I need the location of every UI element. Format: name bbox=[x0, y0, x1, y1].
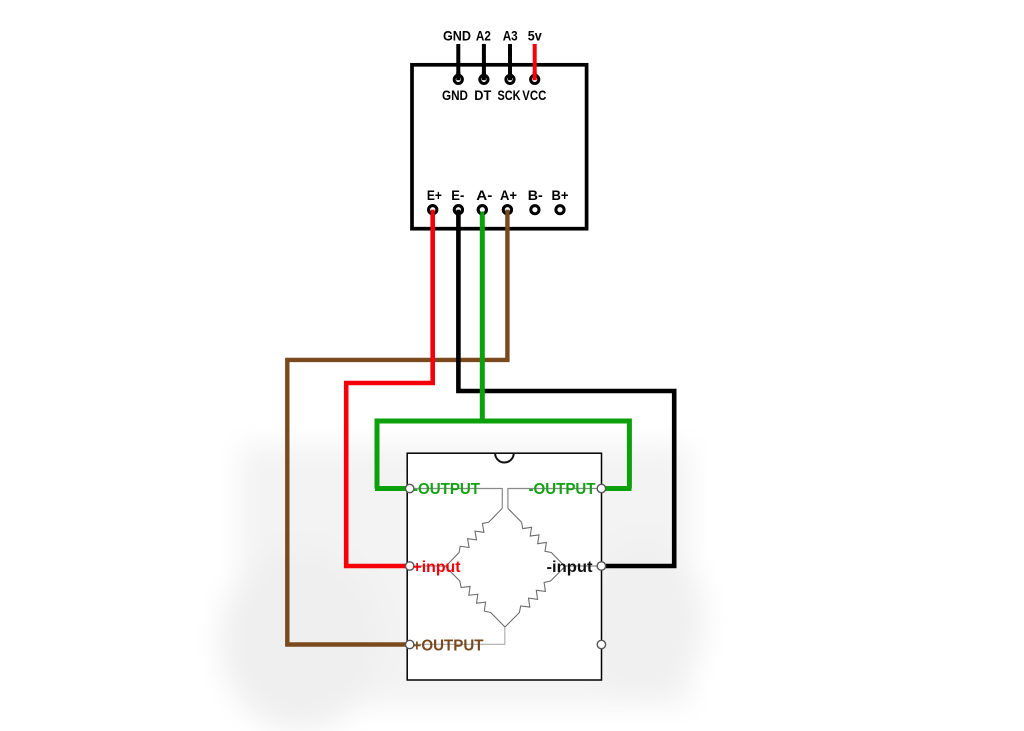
bridge lead: left pin to bridge left node bbox=[410, 565, 446, 567]
notch bbox=[495, 453, 514, 462]
svg-text:GND: GND bbox=[442, 88, 468, 103]
svg-text:SCK: SCK bbox=[498, 88, 521, 103]
pin VCC hole bbox=[531, 75, 539, 83]
resistor R3 (bridge bottom-left) bbox=[446, 567, 506, 628]
pin A+ hole bbox=[503, 206, 511, 214]
wire black through E- hole bbox=[456, 210, 460, 216]
resistor R2 (bridge top-right) bbox=[508, 508, 565, 566]
svg-text:A-: A- bbox=[476, 188, 492, 203]
svg-text:-OUTPUT: -OUTPUT bbox=[413, 481, 480, 498]
bridge lead: bottom node to bottom-left pin bbox=[410, 627, 505, 645]
pin unused bottom-right bbox=[597, 640, 605, 648]
svg-text:A2: A2 bbox=[476, 28, 491, 43]
wire SCK stub (to Arduino A3) bbox=[508, 44, 512, 79]
pin DT stub overlay bbox=[482, 72, 486, 80]
bridge lead: right pin to bridge right node bbox=[565, 565, 601, 567]
pin A+ hole overlay bbox=[503, 206, 511, 214]
pin B- hole bbox=[531, 206, 539, 214]
svg-text:-OUTPUT: -OUTPUT bbox=[529, 481, 596, 498]
svg-text:E-: E- bbox=[451, 188, 464, 203]
svg-text:A+: A+ bbox=[500, 188, 517, 203]
svg-text:E+: E+ bbox=[427, 188, 442, 203]
wire VCC stub red (to Arduino 5v) bbox=[533, 44, 537, 79]
pin SCK stub overlay bbox=[508, 72, 512, 80]
pin -OUTPUT left bbox=[406, 484, 414, 492]
svg-text:GND: GND bbox=[443, 28, 471, 43]
resistor R4 (bridge bottom-right) bbox=[505, 567, 565, 628]
pin DT hole bbox=[480, 75, 488, 83]
wire green entry left -OUTPUT pin bbox=[375, 486, 406, 491]
bridge lead: top-left pin to bridge top node bbox=[410, 489, 502, 509]
svg-text:A3: A3 bbox=[503, 28, 518, 43]
pin -input bbox=[597, 562, 605, 570]
pin A- hole bbox=[478, 206, 486, 214]
wire green entry right -OUTPUT pin bbox=[604, 486, 632, 491]
wire brown A+ to +OUTPUT bbox=[287, 211, 507, 645]
wire red through E+ hole bbox=[431, 210, 435, 216]
wire VCC stub overlay bbox=[533, 72, 537, 80]
pin E+ hole overlay bbox=[429, 206, 437, 214]
wire green through A- hole bbox=[480, 212, 484, 217]
wire DT stub (to Arduino A2) bbox=[482, 44, 486, 79]
pin -OUTPUT right bbox=[597, 484, 605, 492]
svg-text:+input: +input bbox=[413, 559, 462, 576]
resistor R1 (bridge top-left) bbox=[446, 508, 503, 566]
wire brown through A+ hole bbox=[505, 210, 509, 216]
pin +input bbox=[406, 562, 414, 570]
svg-text:VCC: VCC bbox=[522, 88, 546, 103]
pin GND stub overlay bbox=[456, 72, 460, 80]
pin +OUTPUT bbox=[406, 640, 414, 648]
bridge lead: top-right pin to bridge top node bbox=[508, 489, 601, 509]
svg-text:B-: B- bbox=[528, 188, 543, 203]
pin E+ hole bbox=[429, 206, 437, 214]
svg-text:5v: 5v bbox=[528, 28, 542, 43]
wire black E- to -input bbox=[458, 211, 674, 566]
svg-text:-input: -input bbox=[547, 559, 594, 576]
pin A- hole overlay bbox=[478, 206, 486, 214]
load cell body bbox=[407, 453, 601, 680]
wire red E+ to +input bbox=[346, 211, 433, 566]
wire GND stub (to Arduino GND) bbox=[456, 44, 460, 79]
pin E- hole bbox=[454, 206, 462, 214]
pin SCK hole bbox=[506, 75, 514, 83]
svg-text:+OUTPUT: +OUTPUT bbox=[413, 637, 484, 654]
pin B+ hole bbox=[556, 206, 564, 214]
svg-text:B+: B+ bbox=[552, 188, 569, 203]
pin GND hole bbox=[454, 75, 462, 83]
wire green -OUTPUT bus bbox=[377, 421, 629, 489]
wire green A- to -OUTPUT bus bbox=[480, 211, 485, 423]
pin E- hole overlay bbox=[454, 206, 462, 214]
HX711 board U1 bbox=[412, 65, 587, 229]
svg-text:DT: DT bbox=[474, 88, 492, 103]
